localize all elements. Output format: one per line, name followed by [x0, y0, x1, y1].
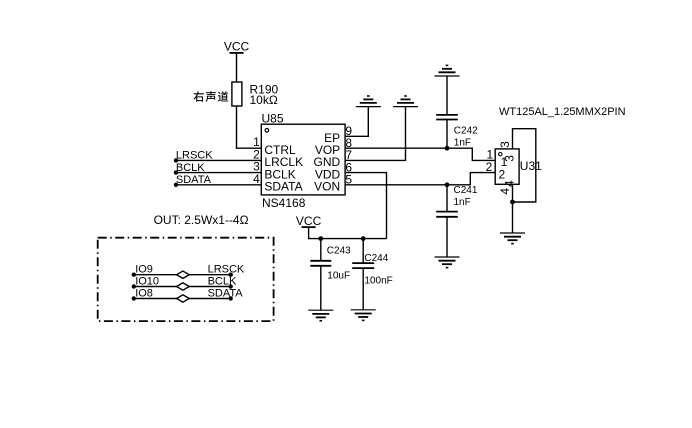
- junction VON/C241: [445, 182, 450, 187]
- wire U31 pin3 loop: [513, 129, 536, 202]
- ground (U31): [500, 233, 525, 244]
- capacitor C244: [352, 263, 374, 268]
- connector U31 body: [495, 149, 519, 184]
- svg-text:3: 3: [498, 141, 512, 148]
- svg-text:BCLK: BCLK: [208, 275, 237, 287]
- svg-text:100nF: 100nF: [364, 276, 392, 287]
- svg-text:4: 4: [503, 180, 517, 187]
- wire: [176, 172, 261, 174]
- svg-text:4: 4: [253, 172, 260, 186]
- svg-text:10kΩ: 10kΩ: [250, 93, 278, 107]
- svg-text:IO10: IO10: [135, 275, 159, 287]
- svg-text:U31: U31: [520, 159, 542, 173]
- svg-text:C244: C244: [364, 253, 388, 264]
- label right-channel (Chinese): [194, 91, 229, 102]
- svg-text:4: 4: [498, 188, 512, 195]
- svg-text:IO8: IO8: [135, 287, 153, 299]
- wire: [362, 239, 364, 264]
- ground (C241): [435, 257, 460, 268]
- svg-text:2: 2: [499, 168, 506, 182]
- wire EP to ground: [345, 107, 368, 137]
- wire: [362, 268, 364, 310]
- wire GND pin to ground: [345, 107, 405, 161]
- wire: [446, 185, 448, 212]
- junction C244: [361, 236, 366, 241]
- net tie IO9-LRSCK: [134, 274, 231, 276]
- capacitor C242: [436, 115, 458, 120]
- op-amp U85 body: [261, 124, 345, 195]
- net tie IO8-SDATA: [134, 298, 231, 300]
- svg-text:WT125AL_1.25MMX2PIN: WT125AL_1.25MMX2PIN: [499, 106, 626, 118]
- svg-text:C242: C242: [454, 125, 478, 136]
- svg-text:IO9: IO9: [135, 264, 153, 276]
- svg-text:1nF: 1nF: [454, 197, 471, 208]
- svg-text:1nF: 1nF: [454, 138, 471, 149]
- svg-text:3: 3: [502, 155, 516, 162]
- svg-text:U85: U85: [262, 112, 284, 126]
- svg-text:VCC: VCC: [224, 40, 250, 54]
- wire: [446, 76, 448, 115]
- wire CTRL net: [237, 106, 262, 148]
- junction U31 ground: [510, 200, 515, 205]
- net tie IO10-BCLK: [134, 286, 231, 288]
- svg-text:VCC: VCC: [296, 214, 322, 228]
- wire: [446, 217, 448, 257]
- ground (C244): [351, 310, 376, 321]
- wire: [320, 239, 322, 261]
- junction VOP/C242: [445, 146, 450, 151]
- wire: [176, 184, 261, 186]
- ground (C242 top): [435, 65, 460, 76]
- wire VDD net: [345, 173, 386, 239]
- dashed group box: [98, 238, 274, 321]
- wire: [446, 120, 448, 149]
- wire U31 pin4: [512, 184, 514, 233]
- junction C243: [318, 236, 323, 241]
- svg-text:SDATA: SDATA: [208, 287, 244, 299]
- power VCC top: [224, 40, 250, 54]
- svg-text:C241: C241: [454, 185, 478, 196]
- capacitor C241: [436, 212, 458, 217]
- wire: [176, 159, 261, 161]
- svg-text:LRSCK: LRSCK: [208, 264, 245, 276]
- ground (C243): [308, 310, 333, 321]
- wire VOP net: [345, 148, 495, 160]
- svg-text:SDATA: SDATA: [264, 180, 302, 194]
- svg-text:NS4168: NS4168: [262, 196, 306, 210]
- svg-text:C243: C243: [327, 246, 351, 257]
- ground (GND pin): [393, 96, 418, 107]
- wire VCC rail: [309, 227, 387, 239]
- wire: [320, 266, 322, 310]
- svg-text:10uF: 10uF: [327, 270, 350, 281]
- wire VON net: [345, 173, 495, 185]
- wire: [236, 53, 238, 82]
- svg-text:2: 2: [486, 160, 493, 174]
- power VCC bottom: [296, 214, 322, 228]
- ground (EP): [356, 96, 381, 107]
- capacitor C243: [310, 261, 331, 266]
- svg-text:OUT: 2.5Wx1--4Ω: OUT: 2.5Wx1--4Ω: [154, 213, 249, 227]
- resistor R190: [232, 82, 242, 106]
- svg-text:VON: VON: [314, 180, 340, 194]
